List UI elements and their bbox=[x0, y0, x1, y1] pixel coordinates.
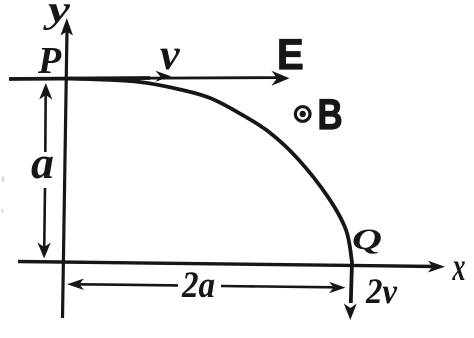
wire: horizontal line from P level (E arrow shaft) bbox=[9, 78, 278, 79]
svg-text:x: x bbox=[452, 244, 466, 289]
x-axis bbox=[18, 261, 445, 273]
svg-text:v: v bbox=[160, 30, 180, 79]
svg-text:2a: 2a bbox=[181, 265, 215, 306]
particle path curve P to Q bbox=[66, 79, 352, 304]
dimension a: vertical double arrow bbox=[38, 83, 53, 259]
svg-text:y: y bbox=[42, 0, 70, 31]
arrow v (small arrowhead on line) bbox=[156, 71, 172, 82]
arrow E (big arrowhead) bbox=[272, 71, 290, 86]
svg-text:2v: 2v bbox=[365, 271, 398, 311]
scan speck bbox=[1, 176, 4, 182]
svg-text:Q: Q bbox=[352, 223, 382, 256]
scan speck bbox=[1, 209, 4, 213]
dimension 2a: horizontal double arrow bbox=[67, 279, 346, 294]
svg-text:E: E bbox=[277, 30, 304, 79]
svg-text:P: P bbox=[37, 40, 62, 82]
arrow 2v (downward arrowhead at bottom of curve) bbox=[344, 304, 357, 321]
field symbol B (circle dot, out of page) bbox=[295, 107, 310, 122]
svg-text:a: a bbox=[31, 137, 54, 188]
svg-text:B: B bbox=[318, 92, 343, 139]
y-axis bbox=[61, 18, 74, 318]
wire: thick left segment of P line bbox=[9, 78, 150, 79]
